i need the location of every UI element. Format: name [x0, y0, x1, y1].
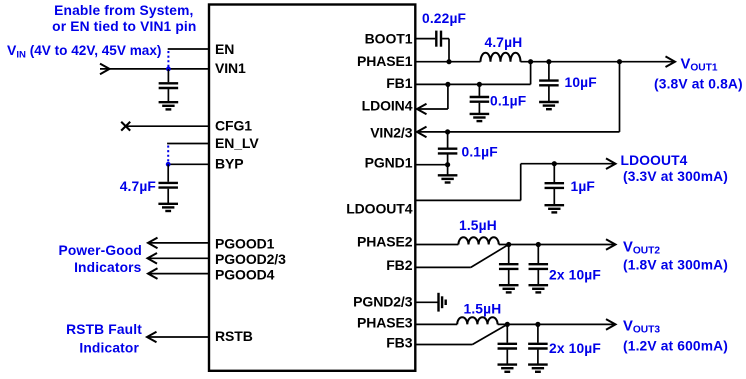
wire EN pin stub	[168, 48, 209, 50]
svg-text:VIN2/3: VIN2/3	[370, 124, 413, 140]
capacitor C8 10uF (VOUT2 a)	[499, 245, 519, 286]
svg-text:PGOOD2/3: PGOOD2/3	[215, 251, 286, 267]
node VOUT2 junction A	[506, 242, 511, 247]
svg-text:FB1: FB1	[386, 75, 412, 91]
svg-text:BYP: BYP	[215, 156, 244, 172]
wire PGND2/3 stub	[415, 301, 438, 303]
wire FB1	[415, 62, 531, 85]
svg-text:4.7µH: 4.7µH	[485, 35, 523, 50]
value label 1.5uH first	[459, 218, 497, 233]
svg-text:EN_LV: EN_LV	[215, 135, 259, 151]
node LDOIN4 arrow into IC	[417, 104, 427, 115]
wire EN_LV stub	[167, 143, 209, 145]
svg-text:4.7µF: 4.7µF	[120, 179, 156, 194]
node VOUT2 arrow	[606, 239, 616, 250]
svg-text:RSTB: RSTB	[215, 328, 253, 344]
svg-text:LDOOUT4: LDOOUT4	[346, 201, 413, 217]
svg-text:Indicator: Indicator	[79, 340, 139, 355]
node FB1 junction on VOUT1	[528, 59, 533, 64]
svg-text:or EN tied to VIN1 pin: or EN tied to VIN1 pin	[52, 19, 196, 34]
annotation: (1.2V at 600mA)	[623, 338, 728, 353]
svg-text:FB2: FB2	[386, 257, 412, 273]
node VIN1/EN junction (blue)	[166, 67, 171, 72]
wire PGOOD4 indicator	[148, 268, 209, 279]
annotation: RSTB Fault	[66, 322, 142, 337]
pin label FB2	[386, 257, 412, 273]
ground (PGND1)	[438, 175, 458, 182]
wire CFG1 stub	[126, 125, 209, 127]
wire BOOT1 stub	[415, 38, 435, 40]
wire LDOOUT4 rail	[521, 163, 616, 165]
wire RSTB indicator	[147, 332, 209, 343]
wire PGOOD2/3 indicator	[148, 253, 210, 264]
annotation: or EN tied to VIN1 pin	[52, 19, 196, 34]
wire VOUT1 rail	[521, 61, 676, 63]
node VOUT1 arrow	[666, 56, 676, 67]
svg-text:PHASE3: PHASE3	[357, 315, 413, 331]
value label 1.5uH second	[464, 302, 502, 317]
value label 0.1uF second	[462, 144, 498, 159]
node LDOOUT4 arrow	[606, 158, 616, 169]
wire PGOOD1 indicator	[148, 238, 209, 249]
pin label RSTB	[215, 328, 253, 344]
node BYP junction (blue)	[166, 162, 171, 167]
node PGND1/C6 junction	[445, 162, 450, 167]
node C7 junction	[552, 161, 557, 166]
net label VOUT2	[623, 240, 660, 257]
wire FB3	[415, 324, 507, 344]
svg-text:1.5µH: 1.5µH	[459, 218, 497, 233]
pin label VIN2/3	[370, 124, 413, 140]
node VIN2/3 arrow into IC	[417, 127, 427, 138]
svg-text:PGND2/3: PGND2/3	[353, 293, 413, 309]
svg-text:Indicators: Indicators	[74, 260, 142, 275]
node FB1/LDOIN4 junction	[445, 82, 450, 87]
inductor L3 1.5uH	[457, 317, 497, 324]
wire PHASE2 stub	[415, 244, 458, 246]
svg-text:0.22µF: 0.22µF	[422, 11, 466, 26]
capacitor C7 1uF (LDOOUT4)	[545, 164, 565, 206]
capacitor C3 0.22uF (BOOT1)	[436, 31, 441, 47]
pin label PGOOD1	[215, 235, 275, 251]
node C4 junction on VOUT1	[546, 59, 551, 64]
pin label PHASE1	[357, 53, 413, 69]
pin label PGND2/3	[353, 293, 413, 309]
node VIN2/3/C6 junction	[445, 129, 450, 134]
node VOUT3 arrow	[606, 319, 616, 330]
pin label PHASE2	[357, 234, 413, 250]
ground (C8)	[499, 285, 519, 292]
ground (C5)	[470, 114, 490, 121]
svg-text:VIN1: VIN1	[215, 60, 246, 76]
svg-text:(1.8V at 300mA): (1.8V at 300mA)	[623, 258, 728, 273]
wire PHASE1 stub	[415, 61, 481, 63]
net label VOUT3	[623, 319, 660, 336]
capacitor C10 10uF (VOUT3 a)	[498, 324, 518, 364]
value label 0.1uF first	[490, 94, 526, 109]
IC U1 (quad-output power-management IC body)	[209, 5, 415, 371]
svg-text:PGND1: PGND1	[365, 155, 413, 171]
wire EN_LV-to-BYP dotted tie (blue)	[167, 146, 169, 163]
value label 4.7uF	[120, 179, 156, 194]
svg-text:RSTB Fault: RSTB Fault	[66, 322, 142, 337]
capacitor C9 10uF (VOUT2 b)	[529, 245, 549, 286]
annotation: Indicators	[74, 260, 142, 275]
node BOOT1/PHASE1 junction	[446, 59, 451, 64]
ground (BYP cap)	[158, 204, 178, 211]
wire FB2	[415, 245, 509, 268]
svg-text:EN: EN	[215, 41, 234, 57]
svg-text:Power-Good: Power-Good	[58, 243, 142, 258]
value label 1uF	[571, 179, 596, 194]
pin label PGOOD4	[215, 267, 275, 283]
ground (C7)	[545, 205, 565, 212]
wire PHASE3 stub	[415, 323, 457, 325]
pin label EN	[215, 41, 234, 57]
wire VOUT2 rail	[499, 244, 616, 246]
svg-text:CFG1: CFG1	[215, 118, 252, 134]
wire BYP stub	[168, 163, 209, 165]
annotation: VIN (4V to 42V, 45V max)	[7, 42, 161, 61]
node VOUT3 junction B	[535, 322, 540, 327]
capacitor C4 10uF (VOUT1)	[539, 62, 559, 102]
value label 10uF	[565, 75, 597, 90]
node CFG1 no-connect X	[121, 122, 130, 131]
pin label BYP	[215, 156, 244, 172]
net label LDOOUT4	[621, 153, 688, 168]
net label VOUT1	[681, 56, 718, 73]
wire LDOIN4 feed	[417, 84, 448, 109]
pin label EN_LV	[215, 135, 259, 151]
pin label LDOOUT4	[346, 201, 413, 217]
node FB1/C5 junction	[477, 82, 482, 87]
pin label FB1	[386, 75, 412, 91]
pin label CFG1	[215, 118, 252, 134]
ground (C4)	[539, 102, 559, 109]
svg-text:0.1µF: 0.1µF	[462, 144, 498, 159]
svg-text:LDOIN4: LDOIN4	[362, 98, 413, 114]
value label 2x 10uF first	[549, 268, 601, 283]
svg-text:0.1µF: 0.1µF	[490, 94, 526, 109]
wire PGND1 stub	[415, 164, 448, 166]
svg-text:PGOOD1: PGOOD1	[215, 235, 275, 251]
annotation: (3.8V at 0.8A)	[654, 76, 743, 91]
inductor L2 1.5uH	[458, 237, 498, 244]
svg-text:(3.8V at 0.8A): (3.8V at 0.8A)	[654, 76, 743, 91]
svg-text:1.5µH: 1.5µH	[464, 302, 502, 317]
node VOUT2 junction B	[536, 242, 541, 247]
value label 2x 10uF second	[549, 341, 601, 356]
node VIN1 input arrow	[100, 64, 110, 75]
svg-text:BOOT1: BOOT1	[365, 31, 413, 47]
svg-text:2x 10µF: 2x 10µF	[549, 341, 601, 356]
capacitor C5 0.1uF (FB1)	[470, 84, 490, 114]
pin label VIN1	[215, 60, 246, 76]
wire VOUT3 rail	[498, 323, 616, 325]
ground (C10)	[498, 365, 518, 372]
annotation: Enable from System,	[54, 3, 193, 18]
svg-text:VIN (4V to 42V, 45V max): VIN (4V to 42V, 45V max)	[7, 42, 161, 61]
svg-text:2x 10µF: 2x 10µF	[549, 268, 601, 283]
capacitor C1 (VIN1 input cap)	[159, 69, 179, 102]
wire VIN1 input	[100, 68, 209, 70]
pin label PGND1	[365, 155, 413, 171]
svg-text:10µF: 10µF	[565, 75, 597, 90]
annotation: Indicator	[79, 340, 139, 355]
svg-text:PHASE2: PHASE2	[357, 234, 413, 250]
wire EN-to-VIN1 dotted tie (blue)	[167, 51, 169, 67]
wire C6 to ground	[447, 165, 449, 176]
pin label FB3	[386, 335, 412, 351]
svg-text:FB3: FB3	[386, 335, 412, 351]
node VIN2/3 feed junction on VOUT1	[617, 59, 622, 64]
capacitor C2 4.7uF (BYP)	[158, 164, 178, 204]
capacitor C6 0.1uF (VIN2/3)	[438, 132, 458, 165]
svg-text:LDOOUT4: LDOOUT4	[621, 153, 688, 168]
ground (C11)	[528, 365, 548, 372]
svg-text:Enable from System,: Enable from System,	[54, 3, 193, 18]
pin label PGOOD2/3	[215, 251, 286, 267]
value label 4.7uH	[485, 35, 523, 50]
inductor L1 4.7uH	[481, 53, 521, 62]
annotation: (3.3V at 300mA)	[623, 169, 728, 184]
pin label LDOIN4	[362, 98, 413, 114]
svg-text:PHASE1: PHASE1	[357, 53, 413, 69]
svg-text:1µF: 1µF	[571, 179, 596, 194]
annotation: (1.8V at 300mA)	[623, 258, 728, 273]
svg-text:(3.3V at 300mA): (3.3V at 300mA)	[623, 169, 728, 184]
ground (C9)	[529, 285, 549, 292]
capacitor C11 10uF (VOUT3 b)	[528, 324, 548, 364]
pin label PHASE3	[357, 315, 413, 331]
svg-text:PGOOD4: PGOOD4	[215, 267, 275, 283]
ground (VIN1 cap)	[159, 102, 179, 109]
wire BOOT1 cap to PHASE1	[442, 39, 449, 62]
value label 0.22uF	[422, 11, 466, 26]
wire LDOOUT4 pin and riser	[415, 164, 521, 201]
ground (PGND2/3, rotated)	[439, 293, 446, 312]
svg-text:(1.2V at 600mA): (1.2V at 600mA)	[623, 338, 728, 353]
annotation: Power-Good	[58, 243, 142, 258]
pin label BOOT1	[365, 31, 413, 47]
node VOUT3 junction A	[505, 322, 510, 327]
wire VIN2/3 feed	[417, 62, 620, 132]
